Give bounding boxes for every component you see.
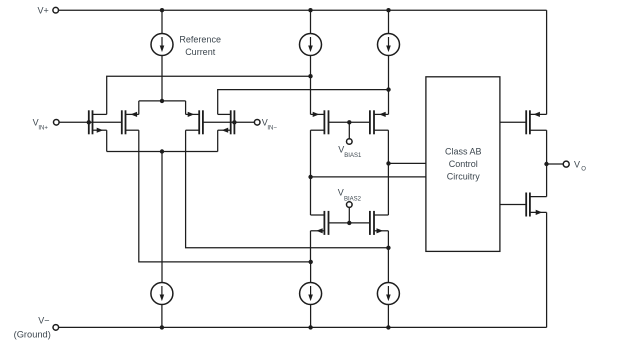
wire from V+ rail to current source I2 xyxy=(310,10,312,33)
svg-text:O: O xyxy=(581,167,586,173)
wire Q3 source up to PMOS tail xyxy=(185,101,187,115)
wire Q3-drain node down to I6 xyxy=(387,248,389,283)
wire VBIAS2 gate link xyxy=(329,222,370,224)
node: V+ rail junction at current source I3 xyxy=(386,8,390,12)
transistor Q6 (cascode, VBIAS1 right) xyxy=(370,110,389,134)
svg-text:V: V xyxy=(338,188,344,198)
wire VIN+ to input gates xyxy=(59,121,122,123)
wire V+ rail down to Q9 source xyxy=(546,10,548,114)
svg-text:Reference: Reference xyxy=(179,34,221,44)
wire Q3 drain down and over to Q8 source node xyxy=(186,130,389,248)
transistor Q3 (input PMOS, VIN-) xyxy=(186,110,203,134)
current source I2 xyxy=(300,34,322,56)
svg-text:IN+: IN+ xyxy=(38,126,48,132)
wire Q9 drain down to output node xyxy=(546,130,548,164)
node: Q3-drain / Q8 / I6 junction xyxy=(386,246,390,250)
label Reference Current xyxy=(179,34,221,57)
transistor Q4 (input NMOS, VIN-) xyxy=(218,110,235,134)
wire output node to VO terminal xyxy=(547,163,564,165)
wire Q6 source down to Q8 xyxy=(387,130,389,215)
svg-text:Current: Current xyxy=(185,47,216,57)
svg-text:Control: Control xyxy=(449,159,478,169)
node: V- rail junction at I5 xyxy=(308,325,312,329)
terminal VIN+ xyxy=(33,117,60,131)
node: I2 / Q1-drain junction xyxy=(308,74,312,78)
wire Q10 source down to V- rail xyxy=(546,212,548,327)
wire VBIAS1 stem xyxy=(348,122,350,138)
wire Q2-drain node down to I5 xyxy=(310,262,312,283)
wire VBIAS1 gate link xyxy=(329,121,370,123)
wire Q1 drain up and over to Q5 xyxy=(107,76,311,114)
transistor Q8 (VBIAS2 right) xyxy=(370,211,389,235)
transistor Q1 (input NMOS, VIN+) xyxy=(89,110,107,134)
svg-text:V−: V− xyxy=(38,315,49,325)
wire input gates to VIN- xyxy=(203,121,255,123)
svg-text:(Ground): (Ground) xyxy=(14,329,51,339)
terminal VIN- xyxy=(254,117,277,131)
wire Q7 drain down to Q2-drain node xyxy=(310,231,312,262)
node: Q2-drain / Q7 / I5 junction xyxy=(309,260,313,264)
wire Class AB box to Q10 gate xyxy=(500,204,526,206)
terminal VO xyxy=(563,160,586,173)
node: PMOS tail junction xyxy=(160,99,164,103)
node: V- rail junction at I6 xyxy=(386,325,390,329)
wire current source I3 down to Q6 drain xyxy=(388,56,390,115)
node: output node VO xyxy=(544,162,548,166)
block: Class AB Control Circuitry xyxy=(426,77,500,252)
node: Q6/Q8 junction to Class AB box xyxy=(386,161,390,165)
node: VBIAS2 gate junction xyxy=(347,221,351,225)
wire I5 to V- rail xyxy=(310,305,312,328)
current source I1 (Reference Current) xyxy=(151,34,173,56)
wire I4 to V- rail xyxy=(161,305,163,328)
wire from V+ rail to reference current source xyxy=(161,10,163,33)
current source I4 xyxy=(151,283,173,305)
wire Q10 drain up to output node xyxy=(546,164,548,197)
current source I5 xyxy=(300,283,322,305)
node: VBIAS1 gate junction xyxy=(347,120,351,124)
wire NMOS tail down to current source I4 xyxy=(161,152,163,283)
current source I3 xyxy=(378,34,400,56)
svg-text:V+: V+ xyxy=(38,6,49,16)
wire VBIAS2 stem xyxy=(348,207,350,223)
node: V+ rail junction at reference current source xyxy=(160,8,164,12)
svg-text:BIAS1: BIAS1 xyxy=(344,153,362,159)
wire Q4 drain up and over to Q6 xyxy=(218,90,389,115)
wire reference current source to PMOS tail node xyxy=(161,56,163,101)
wire Q5/Q7 node to Class AB box xyxy=(311,176,426,178)
transistor Q7 (VBIAS2 left) xyxy=(311,211,329,235)
node: VIN+ gate junction xyxy=(87,120,91,124)
svg-text:Circuitry: Circuitry xyxy=(447,171,480,181)
node: I3 / Q4-drain junction xyxy=(386,87,390,91)
svg-text:V: V xyxy=(574,160,580,170)
wire V+ rail xyxy=(59,9,547,11)
current source I6 xyxy=(377,283,399,305)
transistor Q9 (output PMOS) xyxy=(526,110,546,134)
wire I6 to V- rail xyxy=(387,305,389,328)
wire from V+ rail to current source I3 xyxy=(388,10,390,33)
wire Q4 source down to NMOS tail xyxy=(217,130,219,151)
wire Class AB box to Q9 gate xyxy=(500,121,526,123)
transistor Q10 (output NMOS) xyxy=(526,193,546,217)
node: VIN- gate junction xyxy=(232,120,236,124)
wire NMOS tail line xyxy=(107,151,218,153)
wire V- rail xyxy=(59,326,547,328)
terminal VBIAS1 xyxy=(338,139,362,159)
svg-text:BIAS2: BIAS2 xyxy=(344,197,362,203)
terminal V+ xyxy=(38,6,59,16)
terminal VBIAS2 xyxy=(338,188,362,208)
node: V- rail junction at I4 xyxy=(160,325,164,329)
terminal V- (Ground) xyxy=(14,315,59,339)
node: NMOS tail junction xyxy=(160,149,164,153)
wire Q2 drain down and over to Q7 source node xyxy=(139,130,311,262)
wire Q5 source down to Q7 xyxy=(310,130,312,215)
svg-text:IN−: IN− xyxy=(267,126,277,132)
node: Q5/Q7 junction to Class AB box xyxy=(308,175,312,179)
transistor Q2 (input PMOS, VIN+) xyxy=(122,110,139,134)
wire Q2 source up to PMOS tail xyxy=(138,101,140,115)
transistor Q5 (cascode, VBIAS1 left) xyxy=(311,110,329,134)
node: V+ rail junction at current source I2 xyxy=(308,8,312,12)
wire Q6/Q8 node to Class AB box xyxy=(389,162,426,164)
wire PMOS tail line xyxy=(139,100,186,102)
svg-text:Class AB: Class AB xyxy=(445,146,482,156)
wire current source I2 down to Q5 drain xyxy=(310,56,312,115)
wire Q1 source down to NMOS tail xyxy=(106,130,108,151)
wire Q8 drain down to Q3-drain node xyxy=(387,231,389,248)
